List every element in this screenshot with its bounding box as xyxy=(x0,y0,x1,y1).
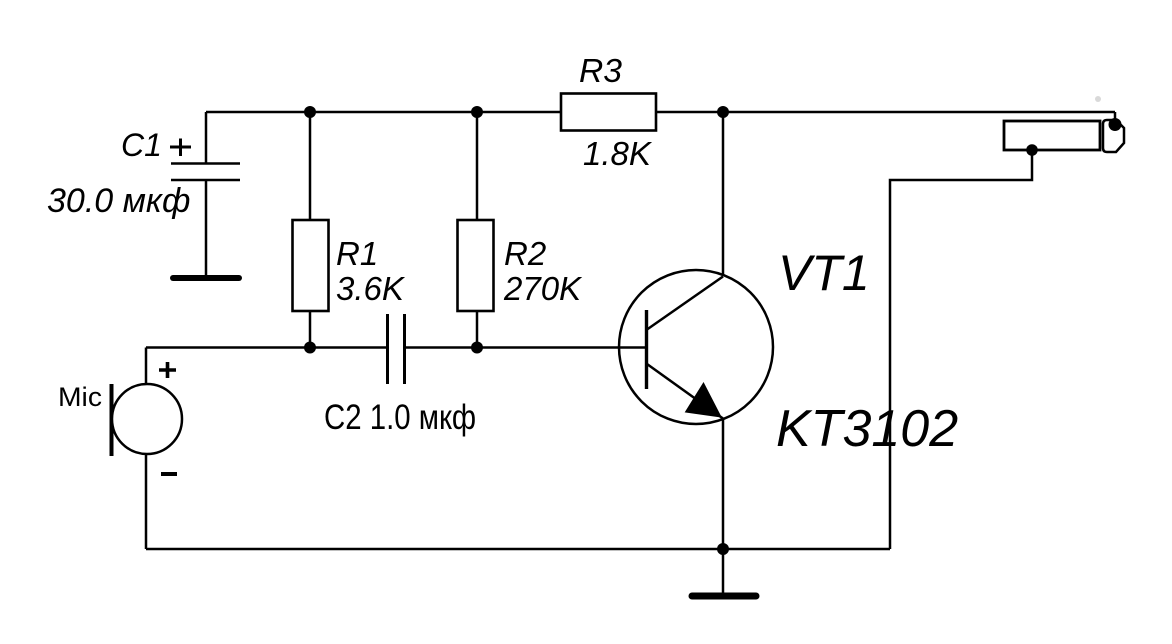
wire top rail right corner down to jack tip xyxy=(1114,112,1117,122)
microphone Mic xyxy=(112,384,183,456)
svg-text:30.0 мкф: 30.0 мкф xyxy=(47,182,190,220)
svg-text:VT1: VT1 xyxy=(778,245,870,301)
connector jack tip xyxy=(1103,120,1124,152)
node jack sleeve xyxy=(1026,144,1038,156)
svg-text:R2: R2 xyxy=(504,235,546,272)
transistor VT1 xyxy=(619,270,773,424)
wire mic left vertical (bottom) xyxy=(145,453,148,549)
svg-text:C1: C1 xyxy=(121,127,162,163)
svg-text:3.6K: 3.6K xyxy=(336,270,406,307)
wire top rail xyxy=(206,111,1115,114)
svg-text:1.8K: 1.8K xyxy=(583,135,653,172)
wire ground stub xyxy=(722,549,725,594)
svg-text:R3: R3 xyxy=(579,52,623,89)
svg-text:KT3102: KT3102 xyxy=(776,400,958,458)
ground bar below C1 xyxy=(173,275,239,281)
svg-text:270K: 270K xyxy=(503,270,583,307)
svg-text:R1: R1 xyxy=(336,235,378,272)
wire collector vertical xyxy=(722,112,725,276)
capacitor C2 xyxy=(388,314,405,384)
wire emitter vertical xyxy=(722,418,725,549)
minus sign of mic xyxy=(161,472,177,476)
ground xyxy=(692,593,756,600)
node top rail / collector xyxy=(717,106,729,118)
wire mid rail right (C2 right plate to base) xyxy=(404,346,646,349)
node mid rail / R1 xyxy=(304,342,316,354)
capacitor C1 xyxy=(171,112,240,277)
connector jack body xyxy=(1004,121,1100,150)
plus sign of C1 xyxy=(170,139,191,157)
resistor R1 xyxy=(293,112,329,348)
resistor R2 xyxy=(458,112,494,348)
wire right vertical from jack sleeve xyxy=(890,150,1032,549)
wire bottom rail xyxy=(146,548,890,551)
plus sign of mic xyxy=(159,362,176,378)
node top rail / R2 xyxy=(471,106,483,118)
node bottom rail / emitter xyxy=(717,543,729,555)
node mid rail / R2 xyxy=(471,342,483,354)
resistor R3 xyxy=(561,94,656,131)
wire mid rail left (mic to C2 left plate) xyxy=(146,346,387,349)
node jack tip xyxy=(1109,118,1122,131)
svg-text:C2 1.0 мкф: C2 1.0 мкф xyxy=(324,398,476,437)
faint jpeg speck artifact xyxy=(1095,96,1101,102)
svg-text:Mic: Mic xyxy=(58,382,102,412)
wire mic left vertical (top) xyxy=(145,348,148,386)
node top rail / R1 xyxy=(304,106,316,118)
